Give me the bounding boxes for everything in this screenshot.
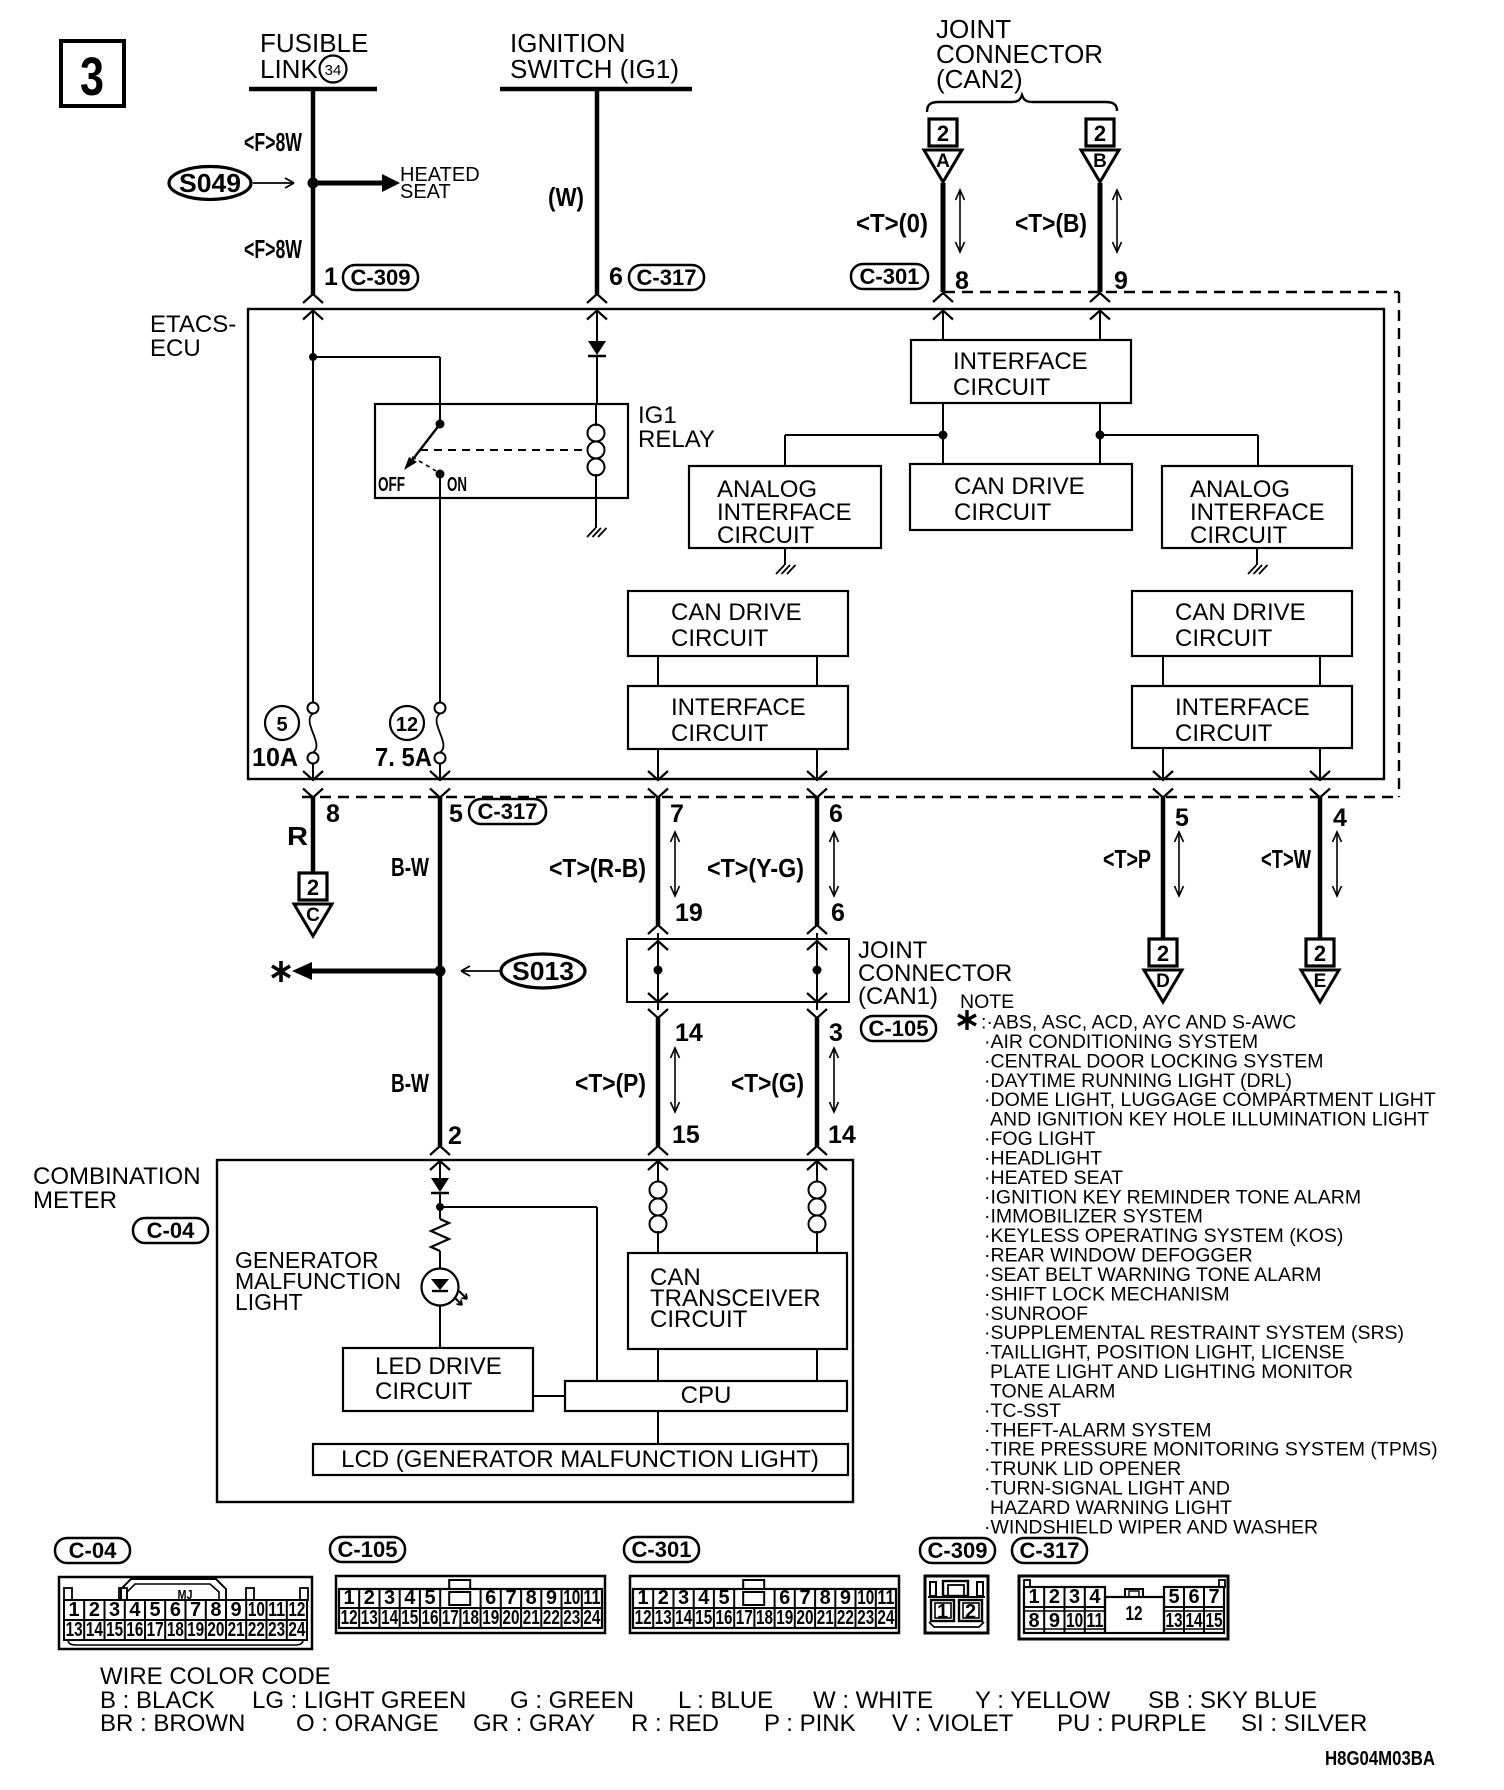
svg-text:5: 5: [1175, 804, 1189, 832]
double arrow 7-19: [674, 832, 676, 896]
svg-text:(W): (W): [548, 182, 584, 212]
heated seat branch arrow: [313, 181, 384, 186]
svg-text:CIRCUIT: CIRCUIT: [1190, 522, 1288, 549]
svg-text:17: 17: [442, 1607, 459, 1629]
svg-text:S049: S049: [179, 168, 241, 198]
svg-text:3: 3: [678, 1587, 689, 1609]
svg-text:R : RED: R : RED: [631, 1710, 719, 1737]
svg-text:O : ORANGE: O : ORANGE: [296, 1710, 439, 1737]
svg-text:8: 8: [820, 1587, 831, 1609]
svg-text:13: 13: [66, 1619, 83, 1641]
svg-text:23: 23: [268, 1619, 285, 1641]
svg-text:19: 19: [675, 899, 703, 927]
svg-text:12: 12: [635, 1607, 652, 1629]
svg-text:9: 9: [546, 1587, 557, 1609]
interface circuit box CAN1 mid: [628, 686, 848, 749]
note star symbol: [958, 1010, 976, 1030]
svg-text:A: A: [936, 151, 950, 172]
entry chevrons meter pin 14: [807, 1146, 827, 1155]
double arrow D: [1178, 832, 1180, 896]
branch wire to relay switch: [313, 356, 440, 358]
svg-text:8: 8: [210, 1599, 221, 1621]
connector label C-301: [851, 264, 928, 289]
combination meter box: [217, 1160, 853, 1502]
svg-text:14: 14: [828, 1121, 856, 1149]
splice S013: [501, 954, 585, 988]
wire interface to can drive left: [942, 403, 944, 464]
connector face C-105: [336, 1576, 605, 1633]
svg-text:21: 21: [228, 1619, 245, 1641]
wire interface to can drive right: [1099, 403, 1101, 464]
svg-text:12: 12: [288, 1599, 305, 1621]
CAN transceiver circuit box: [628, 1253, 847, 1349]
exit chevrons pin 6: [807, 771, 827, 780]
branch to right analog interface: [1100, 434, 1258, 436]
junction dot joint right: [813, 966, 822, 975]
svg-text:2: 2: [965, 1601, 976, 1623]
wire T R-B upper: [656, 797, 661, 925]
svg-text:INTERFACE: INTERFACE: [953, 348, 1088, 375]
ground IG1 relay: [587, 528, 596, 537]
can drive circuit box CAN1 mid: [628, 591, 848, 656]
double arrow E: [1336, 832, 1338, 896]
svg-text:16: 16: [716, 1607, 733, 1629]
wire meter pin2 to diode: [439, 1161, 441, 1178]
svg-text:C-04: C-04: [147, 1218, 195, 1243]
svg-text:23: 23: [563, 1607, 580, 1629]
wire pin9 to interface: [1099, 310, 1101, 340]
svg-text:V : VIOLET: V : VIOLET: [892, 1710, 1014, 1737]
svg-text:5: 5: [276, 714, 287, 736]
svg-text:7. 5A: 7. 5A: [375, 742, 432, 772]
svg-text:RELAY: RELAY: [638, 426, 715, 453]
svg-text:2: 2: [658, 1587, 669, 1609]
svg-text:OFF: OFF: [378, 474, 405, 496]
svg-text:5: 5: [1168, 1586, 1179, 1608]
svg-text:2: 2: [1157, 941, 1169, 966]
svg-text:16: 16: [126, 1619, 143, 1641]
svg-text:INTERFACE: INTERFACE: [1175, 694, 1310, 721]
svg-text:10: 10: [1066, 1610, 1083, 1632]
connector face C-301: [630, 1576, 899, 1633]
svg-text:11: 11: [268, 1599, 285, 1621]
wires can drive to interface right: [1162, 656, 1164, 686]
svg-text:8: 8: [326, 800, 340, 828]
ETACS-ECU inner solid box: [248, 309, 1384, 779]
entry chevrons pin 1: [303, 294, 323, 303]
svg-text:15: 15: [401, 1607, 418, 1629]
svg-text:CIRCUIT: CIRCUIT: [671, 625, 769, 652]
svg-text:1: 1: [344, 1587, 355, 1609]
svg-text:12: 12: [1126, 1603, 1143, 1625]
svg-text:<T>(B): <T>(B): [1015, 208, 1087, 238]
entry chevrons meter pin 15: [648, 1146, 668, 1155]
svg-text:CAN DRIVE: CAN DRIVE: [954, 473, 1085, 500]
svg-text:2: 2: [448, 1122, 462, 1150]
svg-text:COMBINATION: COMBINATION: [33, 1163, 201, 1190]
svg-text:24: 24: [877, 1607, 895, 1629]
ETACS-ECU dashed boundary bottom: [302, 796, 1399, 798]
svg-text:5: 5: [424, 1587, 435, 1609]
diode ignition feed: [588, 341, 606, 355]
svg-text:C-105: C-105: [869, 1016, 929, 1041]
svg-text:1: 1: [937, 1601, 948, 1623]
coil meter 15: [657, 1160, 659, 1182]
svg-text:IG1: IG1: [638, 402, 677, 429]
analog interface circuit box left: [689, 466, 881, 548]
svg-text:4: 4: [1333, 804, 1347, 832]
svg-text:CIRCUIT: CIRCUIT: [1175, 720, 1273, 747]
svg-text:CIRCUIT: CIRCUIT: [1175, 625, 1273, 652]
arrow S013 to junction: [462, 970, 500, 972]
svg-text:3: 3: [1069, 1586, 1080, 1608]
svg-text:CIRCUIT: CIRCUIT: [717, 522, 815, 549]
interface circuit box CAN2: [911, 340, 1131, 403]
svg-text:<T>P: <T>P: [1103, 844, 1151, 874]
svg-text:10: 10: [563, 1587, 580, 1609]
double arrow A: [959, 190, 961, 252]
svg-text:14: 14: [1186, 1610, 1204, 1632]
svg-text:7: 7: [670, 800, 684, 828]
wire T P lower: [656, 1018, 661, 1146]
svg-text:B-W: B-W: [391, 1068, 429, 1098]
wire pin8 to interface: [942, 310, 944, 340]
svg-text:LCD (GENERATOR MALFUNCTION LIG: LCD (GENERATOR MALFUNCTION LIGHT): [341, 1446, 819, 1473]
svg-text:4: 4: [129, 1599, 141, 1621]
svg-text:CAN DRIVE: CAN DRIVE: [671, 599, 802, 626]
interface circuit box right col: [1132, 686, 1352, 748]
fuse 5 10A: [308, 703, 319, 714]
wire pin6 internal: [596, 310, 598, 341]
svg-text:7: 7: [505, 1587, 516, 1609]
svg-text:14: 14: [381, 1607, 399, 1629]
connector label C-309 top: [343, 265, 418, 290]
svg-text:BR : BROWN: BR : BROWN: [100, 1710, 245, 1737]
svg-text:15: 15: [106, 1619, 123, 1641]
junction dot joint left: [654, 966, 663, 975]
svg-text:D: D: [1156, 971, 1170, 992]
relay switch arm: [410, 424, 440, 463]
ETACS-ECU dashed boundary right: [1398, 292, 1400, 797]
svg-text:SWITCH (IG1): SWITCH (IG1): [510, 54, 679, 84]
svg-text:19: 19: [776, 1607, 793, 1629]
connector label C-105 mid: [861, 1016, 936, 1041]
svg-text:2: 2: [364, 1587, 375, 1609]
svg-text:2: 2: [1094, 121, 1106, 146]
wire fuse12 to pin5 exit: [439, 763, 441, 779]
svg-text:C-301: C-301: [860, 264, 920, 289]
splice S049: [169, 167, 251, 200]
svg-text:2: 2: [89, 1599, 100, 1621]
LED drive circuit box: [343, 1348, 533, 1411]
connector face label C-301: [624, 1537, 699, 1562]
svg-text:18: 18: [462, 1607, 479, 1629]
svg-text:CIRCUIT: CIRCUIT: [671, 720, 769, 747]
svg-text:16: 16: [422, 1607, 439, 1629]
svg-text:<T>(P): <T>(P): [575, 1068, 646, 1098]
connector 2-D symbol: [1149, 939, 1177, 966]
svg-text:13: 13: [361, 1607, 378, 1629]
IG1 relay box: [375, 404, 628, 498]
svg-text:<T>W: <T>W: [1261, 844, 1311, 874]
LED generator malfunction light: [422, 1269, 459, 1306]
svg-text:8: 8: [1029, 1610, 1040, 1632]
coil meter 14: [816, 1160, 818, 1182]
double arrow B: [1116, 190, 1118, 252]
svg-text:·WINDSHIELD WIPER AND WASHER: ·WINDSHIELD WIPER AND WASHER: [984, 1516, 1318, 1538]
branch to left analog interface: [785, 434, 943, 436]
chevrons joint exit right: [807, 993, 827, 1002]
junction dot left bus: [939, 431, 948, 440]
svg-text:9: 9: [840, 1587, 851, 1609]
entry chevrons pin 8: [933, 293, 953, 302]
resistor meter: [431, 1219, 449, 1251]
svg-text:C-04: C-04: [69, 1538, 117, 1563]
connector face label C-309: [920, 1538, 995, 1563]
wire led drive to CPU: [533, 1395, 565, 1397]
fusible link bus bar: [249, 87, 377, 92]
ground analog right: [1256, 548, 1258, 565]
svg-text:6: 6: [831, 899, 845, 927]
svg-text:15: 15: [672, 1121, 700, 1149]
svg-text:1: 1: [1029, 1586, 1040, 1608]
svg-text:C-301: C-301: [632, 1537, 692, 1562]
exit chevrons pin 8: [303, 771, 323, 780]
junction dot relay feed: [309, 353, 317, 361]
svg-text:S013: S013: [512, 956, 574, 986]
svg-text:19: 19: [187, 1619, 204, 1641]
wire through joint right: [816, 933, 818, 1010]
svg-text:22: 22: [837, 1607, 854, 1629]
connector face label C-105: [330, 1537, 405, 1562]
ignition bus bar: [500, 87, 692, 92]
svg-text:10: 10: [248, 1599, 265, 1621]
diode meter: [431, 1178, 449, 1192]
svg-text:C-317: C-317: [478, 799, 538, 824]
svg-text:(CAN2): (CAN2): [936, 64, 1023, 94]
svg-text:22: 22: [543, 1607, 560, 1629]
svg-text:12: 12: [396, 714, 418, 736]
svg-text:11: 11: [1086, 1610, 1103, 1632]
wire CPU to LCD: [657, 1411, 659, 1444]
svg-text:5: 5: [449, 800, 463, 828]
entry chevrons pin 9: [1090, 293, 1110, 302]
svg-text:4: 4: [404, 1587, 416, 1609]
svg-text:3: 3: [384, 1587, 395, 1609]
wire R to connector C: [311, 797, 316, 873]
svg-text:5: 5: [718, 1587, 729, 1609]
svg-text:15: 15: [695, 1607, 712, 1629]
analog interface circuit box right: [1162, 466, 1352, 548]
svg-text:B-W: B-W: [391, 852, 429, 882]
svg-text:METER: METER: [33, 1187, 117, 1214]
exit chevrons pin 5: [430, 771, 450, 780]
svg-text:1: 1: [324, 263, 338, 291]
svg-text:13: 13: [655, 1607, 672, 1629]
svg-text:7: 7: [799, 1587, 810, 1609]
svg-text:14: 14: [675, 1019, 703, 1047]
svg-text:<T>(0): <T>(0): [856, 208, 928, 238]
svg-text:20: 20: [797, 1607, 814, 1629]
brace CAN2: [927, 95, 1117, 112]
connector 2-C symbol: [299, 873, 327, 900]
svg-text:3: 3: [109, 1599, 120, 1621]
junction dot S013: [435, 966, 446, 977]
chevrons joint entry left: [648, 925, 668, 934]
svg-text:17: 17: [736, 1607, 753, 1629]
connector face C-309: [925, 1576, 988, 1633]
connector face label C-04: [55, 1538, 130, 1563]
svg-text:7: 7: [1208, 1586, 1219, 1608]
wires transceiver to CPU: [657, 1349, 659, 1381]
sheet number box: [61, 41, 124, 106]
svg-text:SEAT: SEAT: [400, 181, 451, 203]
svg-text:ETACS-: ETACS-: [150, 311, 236, 338]
relay coil: [595, 403, 597, 425]
svg-text:2: 2: [937, 121, 949, 146]
svg-text:C-309: C-309: [351, 265, 411, 290]
junction dot right bus: [1096, 431, 1105, 440]
svg-text:2: 2: [1049, 1586, 1060, 1608]
svg-text:20: 20: [503, 1607, 520, 1629]
svg-text:<T>(R-B): <T>(R-B): [549, 853, 646, 883]
svg-text:21: 21: [523, 1607, 540, 1629]
connector 2-B symbol: [1086, 119, 1114, 146]
svg-text:C-309: C-309: [928, 1538, 988, 1563]
svg-text:3: 3: [80, 47, 104, 107]
asterisk mark: [272, 961, 290, 982]
wire B-W upper: [438, 797, 443, 971]
svg-text:11: 11: [877, 1587, 894, 1609]
svg-text:17: 17: [147, 1619, 164, 1641]
svg-text:CIRCUIT: CIRCUIT: [954, 499, 1052, 526]
relay mechanical link dashed: [420, 449, 584, 451]
svg-text:ON: ON: [447, 474, 467, 496]
relay switch pivot dot: [436, 420, 445, 429]
svg-text:9: 9: [1049, 1610, 1060, 1632]
svg-text:<F>8W: <F>8W: [244, 234, 302, 264]
exit chevrons pin 5 right: [1153, 771, 1173, 780]
svg-text:CIRCUIT: CIRCUIT: [650, 1306, 748, 1333]
svg-text:<F>8W: <F>8W: [244, 127, 302, 157]
svg-text:4: 4: [1089, 1586, 1101, 1608]
svg-text:CPU: CPU: [681, 1382, 732, 1409]
svg-text:13: 13: [1166, 1610, 1183, 1632]
svg-text:22: 22: [248, 1619, 265, 1641]
svg-text:14: 14: [86, 1619, 104, 1641]
svg-text:CAN DRIVE: CAN DRIVE: [1175, 599, 1306, 626]
svg-text:NOTE: NOTE: [960, 991, 1014, 1013]
svg-text:2: 2: [307, 875, 319, 900]
connector face C-04: [59, 1577, 312, 1649]
svg-text:4: 4: [698, 1587, 710, 1609]
circled 34: [320, 56, 347, 83]
relay ON contact dot: [436, 470, 445, 479]
connector 2-A symbol: [929, 119, 957, 146]
wire CAN2-A to pin 8: [941, 183, 946, 292]
svg-text:10: 10: [857, 1587, 874, 1609]
svg-text:3: 3: [829, 1019, 843, 1047]
svg-text:<T>(Y-G): <T>(Y-G): [707, 853, 804, 883]
svg-text:24: 24: [583, 1607, 601, 1629]
branch diode to CPU: [440, 1206, 597, 1208]
connector label C-04 mid: [133, 1218, 208, 1243]
svg-text:WIRE COLOR CODE: WIRE COLOR CODE: [100, 1663, 331, 1690]
svg-text:LIGHT: LIGHT: [235, 1289, 303, 1315]
svg-text:18: 18: [756, 1607, 773, 1629]
joint connector CAN1 box: [627, 939, 849, 1002]
svg-text:34: 34: [325, 62, 342, 79]
wire through joint left: [657, 933, 659, 1010]
wire T Y-G upper: [815, 797, 820, 925]
can drive circuit box CAN2: [910, 464, 1132, 530]
exit chevrons pin 4: [1310, 771, 1330, 780]
svg-text:14: 14: [675, 1607, 693, 1629]
svg-text:<T>(G): <T>(G): [731, 1068, 804, 1098]
svg-text:21: 21: [817, 1607, 834, 1629]
entry chevrons pin 6: [587, 294, 607, 303]
wire ignition switch to pin 6: [595, 89, 600, 294]
wire fuse5 to pin8 exit: [312, 763, 314, 779]
double arrow 6-6: [833, 832, 835, 896]
connector label C-317 top: [629, 265, 704, 290]
arrow S049 to wire: [253, 182, 293, 184]
svg-text:9: 9: [231, 1599, 242, 1621]
wire T W right: [1318, 797, 1323, 939]
svg-text:24: 24: [288, 1619, 306, 1641]
svg-text:LINK: LINK: [260, 54, 318, 84]
svg-text:CIRCUIT: CIRCUIT: [953, 374, 1051, 401]
svg-text:11: 11: [583, 1587, 600, 1609]
svg-text:C-317: C-317: [637, 265, 697, 290]
svg-text:1: 1: [69, 1599, 80, 1621]
svg-text:5: 5: [150, 1599, 161, 1621]
ETACS-ECU dashed boundary top: [944, 291, 1399, 293]
wire CAN2-B to pin 9: [1098, 183, 1103, 292]
svg-text:(CAN1): (CAN1): [858, 983, 938, 1010]
wire LED to led drive: [439, 1306, 441, 1348]
relay ON wire down: [439, 474, 441, 703]
svg-text:6: 6: [779, 1587, 790, 1609]
svg-text:CIRCUIT: CIRCUIT: [375, 1378, 473, 1405]
relay coil ground wire: [595, 498, 597, 528]
wire diode to junction: [439, 1193, 441, 1219]
entry chevrons meter pin 2: [430, 1146, 450, 1155]
svg-text:INTERFACE: INTERFACE: [671, 694, 806, 721]
junction dot meter: [436, 1203, 444, 1211]
svg-text:E: E: [1314, 971, 1327, 992]
svg-text:23: 23: [857, 1607, 874, 1629]
svg-text:6: 6: [829, 800, 843, 828]
svg-text:H8G04M03BA: H8G04M03BA: [1325, 1748, 1435, 1770]
wire pin1 internal: [312, 310, 314, 703]
svg-text:GR : GRAY: GR : GRAY: [473, 1710, 595, 1737]
svg-text:P : PINK: P : PINK: [764, 1710, 856, 1737]
ground analog left: [784, 548, 786, 565]
wires can drive to interface mid: [657, 656, 659, 686]
svg-text:6: 6: [1188, 1586, 1199, 1608]
svg-text:C-105: C-105: [338, 1537, 398, 1562]
wire T P right: [1161, 797, 1166, 939]
svg-text:15: 15: [1206, 1610, 1223, 1632]
svg-text:LED DRIVE: LED DRIVE: [375, 1353, 502, 1380]
can drive circuit box right: [1132, 591, 1352, 656]
junction dot S049: [308, 178, 319, 189]
svg-text:8: 8: [526, 1587, 537, 1609]
svg-text:19: 19: [482, 1607, 499, 1629]
svg-text:20: 20: [207, 1619, 224, 1641]
connector 2-E symbol: [1306, 939, 1334, 966]
